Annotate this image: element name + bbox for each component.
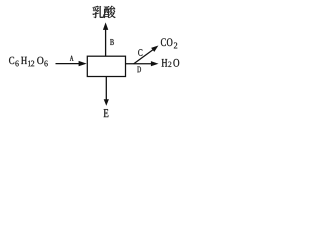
arrow E shaft (box bottom, down) xyxy=(105,77,107,100)
label E xyxy=(104,109,109,117)
arrow D shaft (box right to H2O) xyxy=(126,63,152,65)
text CO2 (product) xyxy=(161,38,177,48)
text C6H12O6 (glucose, reactant) xyxy=(9,57,48,67)
label B xyxy=(110,39,114,45)
label C xyxy=(138,49,142,56)
arrow C head xyxy=(151,46,158,52)
text 乳酸 (lactic acid, top product) xyxy=(93,6,116,18)
arrow E head xyxy=(104,99,109,106)
arrow D head xyxy=(151,61,159,66)
process box xyxy=(87,56,125,76)
arrow A head xyxy=(79,61,87,66)
arrow B shaft (box top to 乳酸) xyxy=(105,29,107,56)
arrow B head xyxy=(103,22,108,30)
label D xyxy=(137,67,141,73)
label A xyxy=(70,56,74,61)
arrow C shaft (branch up to CO2) xyxy=(134,49,154,64)
text H2O (product) xyxy=(162,59,180,67)
arrow A shaft (glucose to box) xyxy=(56,63,80,65)
